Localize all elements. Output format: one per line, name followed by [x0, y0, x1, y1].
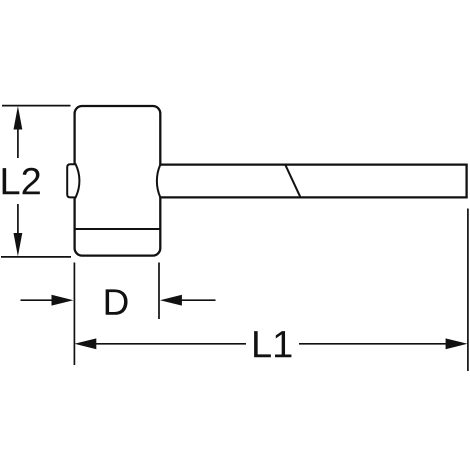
- left face insert tab: [67, 164, 76, 197]
- D label glyph: [106, 289, 128, 314]
- L2 top extension line: [2, 105, 71, 107]
- L2 label "2" glyph: [23, 168, 40, 195]
- D left arrowhead: [52, 295, 74, 306]
- handle break diagonal line: [285, 165, 300, 198]
- L2 top arrowhead: [14, 106, 23, 130]
- L1 right arrowhead: [446, 338, 468, 349]
- D right arrowhead: [160, 295, 182, 306]
- head lower cap separation line: [75, 228, 161, 230]
- L2 dimension line lower segment: [17, 204, 19, 238]
- D/L1 shared left extension line: [73, 263, 75, 366]
- L2 dimension line upper segment: [17, 126, 19, 158]
- hammer head outline: [75, 106, 161, 256]
- L1 label "L" glyph: [254, 331, 271, 357]
- L1 dimension line left segment: [92, 343, 246, 345]
- D right arrow line: [180, 299, 216, 301]
- handle eye arc inside head: [157, 165, 160, 198]
- L1 label "1" glyph: [275, 331, 291, 357]
- L2 label "L" glyph: [3, 168, 20, 194]
- D left arrow line: [21, 299, 57, 301]
- L1 right extension line: [467, 209, 469, 372]
- L2 bottom extension line: [1, 256, 71, 258]
- D right extension line: [158, 263, 160, 320]
- L2 bottom arrowhead: [14, 233, 23, 256]
- head edge mask at handle junction: [158, 166, 163, 196]
- L1 dimension line right segment: [299, 343, 450, 345]
- L1 left arrowhead: [74, 338, 96, 349]
- left face insert edge arc: [76, 164, 80, 197]
- handle shaft: [160, 165, 466, 198]
